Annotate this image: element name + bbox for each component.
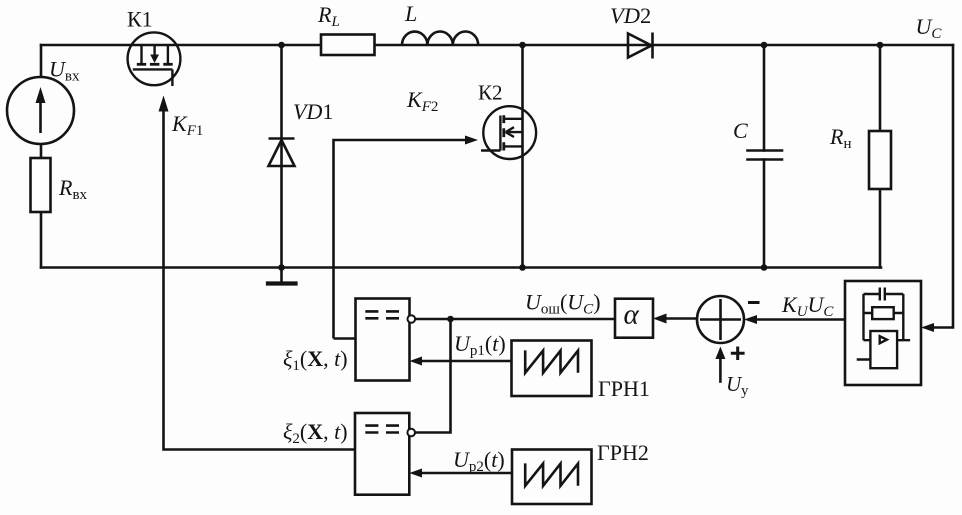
svg-text:К2: К2 xyxy=(478,81,503,105)
svg-text:VD1: VD1 xyxy=(293,99,333,124)
svg-text:L: L xyxy=(404,1,417,26)
svg-text:ГРН2: ГРН2 xyxy=(597,440,649,465)
svg-text:ГРН1: ГРН1 xyxy=(598,376,650,401)
svg-text:К1: К1 xyxy=(127,7,153,32)
svg-text:α: α xyxy=(624,299,640,331)
svg-text:C: C xyxy=(733,118,748,143)
svg-text:VD2: VD2 xyxy=(610,3,651,28)
